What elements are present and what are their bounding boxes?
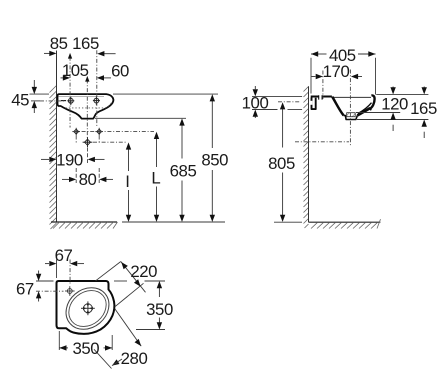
trap line dash-dot side view xyxy=(295,141,349,143)
tab hole centerline through wall dash-dot xyxy=(278,101,301,103)
dim 165 arrows xyxy=(423,87,425,90)
svg-text:67: 67 xyxy=(55,246,73,265)
dim 280 connecting line xyxy=(112,359,122,366)
wall hatching side view xyxy=(304,87,309,229)
floor line front view xyxy=(51,221,117,223)
dim 80 arrow left xyxy=(62,178,69,180)
dim 67 top extension line xyxy=(56,260,58,279)
svg-text:67: 67 xyxy=(16,279,34,298)
svg-text:120: 120 xyxy=(381,95,408,114)
dim 45 top extension line xyxy=(30,93,50,95)
dim 67 left extension line xyxy=(36,280,54,282)
dim 220 extension line upper xyxy=(96,262,121,281)
svg-text:100: 100 xyxy=(242,94,269,113)
tap hole vertical centerline plan xyxy=(69,260,71,286)
tab hole white notch xyxy=(310,101,312,105)
dim 350 bottom extensions xyxy=(58,331,60,350)
svg-text:85: 85 xyxy=(50,34,68,53)
dim 45 arrow top xyxy=(33,80,35,88)
chain arrow at 105/60 junction xyxy=(85,76,89,82)
dim L vertical line xyxy=(156,136,158,218)
bowl right wall side view xyxy=(357,108,370,115)
dim 67 top arrows xyxy=(45,263,49,265)
svg-text:I: I xyxy=(125,172,129,191)
extension line 405 right xyxy=(375,58,377,95)
dim I vertical line xyxy=(128,147,130,219)
dim 80 arrow right xyxy=(106,178,113,180)
svg-text:685: 685 xyxy=(170,162,197,181)
dim 120 arrows xyxy=(392,87,394,90)
bolt hole marker right xyxy=(95,128,103,136)
dim 190 arrow left xyxy=(41,158,49,160)
plan outline xyxy=(57,281,115,334)
svg-text:350: 350 xyxy=(72,339,99,358)
tap hole slot borders side view xyxy=(319,95,322,99)
dim 100 arrow top xyxy=(254,86,256,89)
svg-text:280: 280 xyxy=(121,349,148,368)
tap hole plan xyxy=(65,286,75,296)
extension line basin top (850) xyxy=(113,93,218,95)
extension line basin bottom (685) xyxy=(95,117,186,119)
drain centerline vertical dash-dot xyxy=(349,70,351,147)
front lip bottom tip xyxy=(369,108,371,110)
wall face line side view xyxy=(308,86,310,222)
dim 85 arrow left xyxy=(44,52,50,54)
dim 220 arrow upper xyxy=(119,260,128,269)
tap hole centerline side view dash-dot xyxy=(322,71,324,100)
dim 220 extension line lower (from bulge) xyxy=(115,283,144,307)
dim 100 extension lines xyxy=(252,95,302,97)
floor extension line left of wall xyxy=(274,221,302,223)
dim 405 line with arrows xyxy=(311,53,376,55)
tap hole horizontal centerline plan xyxy=(36,290,64,292)
svg-text:105: 105 xyxy=(62,61,89,80)
svg-text:L: L xyxy=(151,168,160,187)
drain flange hatched side view xyxy=(347,113,356,117)
basin rim top band side view xyxy=(311,96,332,98)
svg-text:165: 165 xyxy=(72,34,99,53)
dim 280 arrow lower xyxy=(111,359,120,367)
floor extension line (to vertical dims) xyxy=(122,221,225,223)
bowl outer oval plan xyxy=(58,279,118,338)
floor hatching front view xyxy=(53,222,118,229)
tap hole horizontal centerline through wall xyxy=(40,100,64,102)
overflow slot dash xyxy=(61,100,66,102)
bowl inner oval plan xyxy=(62,283,114,334)
dim 805 vertical line xyxy=(282,106,284,218)
dim 850 vertical line xyxy=(211,98,213,218)
svg-text:190: 190 xyxy=(56,150,83,169)
svg-text:850: 850 xyxy=(201,150,228,169)
hidden bowl rim dotted line xyxy=(66,107,106,109)
bolt hole marker left xyxy=(72,128,80,136)
svg-text:60: 60 xyxy=(111,62,129,81)
dim 280 arrow upper xyxy=(135,339,144,348)
floor hatching side view xyxy=(311,219,381,228)
dim 190/80 extension dash at center xyxy=(87,148,89,164)
dim 165 arrow right xyxy=(104,53,116,55)
svg-text:165: 165 xyxy=(410,99,437,118)
svg-text:45: 45 xyxy=(11,90,29,109)
wall hatching front view xyxy=(50,86,57,230)
centerline tap hole 2 (vertical dash-dot) xyxy=(96,50,98,127)
extension line 405 left xyxy=(310,58,312,94)
dim 170 arrows xyxy=(312,76,316,78)
dim 350 bottom line xyxy=(59,347,112,349)
bowl left wall side view xyxy=(332,97,343,116)
extension line rim top right xyxy=(376,93,428,95)
svg-text:170: 170 xyxy=(323,62,350,81)
dim 280 lower extension line xyxy=(94,349,112,368)
svg-text:350: 350 xyxy=(146,300,173,319)
main centerline (vertical dash-dot) xyxy=(86,80,88,144)
drain symbol plan xyxy=(81,301,95,315)
centerline tap hole 1 (vertical dash-dot) xyxy=(69,57,71,128)
bolt line dash-dot horizontal xyxy=(73,131,154,133)
extension line front lip bottom xyxy=(356,112,400,114)
svg-text:220: 220 xyxy=(130,262,157,281)
wall face line front view (also extension line for 85 dim) xyxy=(56,51,58,223)
trap line dash-dot horizontal xyxy=(93,141,127,143)
dim 45 arrow bottom xyxy=(33,106,35,113)
dim 60 arrow xyxy=(104,77,111,79)
basin outline front view xyxy=(58,94,114,119)
svg-text:80: 80 xyxy=(79,170,97,189)
dim 100 arrow bottom xyxy=(254,115,256,118)
dim 350 right bottom extension xyxy=(136,329,165,331)
hidden bowl rim dotted curve right xyxy=(105,103,111,108)
dim 80 extension dashes xyxy=(75,168,77,183)
front lip side view xyxy=(370,95,375,108)
dim 350 right vertical line xyxy=(158,285,160,326)
dim 220 line lower part xyxy=(121,262,146,293)
dim 280 diagonal line upper xyxy=(115,309,141,346)
svg-text:805: 805 xyxy=(268,154,295,173)
trap outlet cross xyxy=(83,137,93,147)
tap hole 2 front xyxy=(93,96,100,105)
tap hole 1 front xyxy=(67,97,74,106)
dim 105 arrow left xyxy=(61,77,64,79)
basin rim inner top line xyxy=(59,96,105,98)
dim 67 left arrows xyxy=(38,271,40,274)
rim deck thin top line side view xyxy=(332,96,371,98)
dim 220 arrow lower xyxy=(134,279,143,288)
bowl right inner surface line xyxy=(358,103,372,114)
chain arrow at 85/165 junction xyxy=(68,53,72,59)
dim 190 arrow right xyxy=(95,158,105,160)
dim 350 right top extension xyxy=(114,280,165,282)
extension line bowl bottom right xyxy=(357,119,428,121)
drain bump outline side view xyxy=(344,115,358,119)
dim 685 vertical line xyxy=(181,122,183,218)
floor line side view xyxy=(309,221,381,223)
back fixing tab side view xyxy=(312,98,316,110)
bolt marker verticals dash-dot xyxy=(75,136,77,143)
dim 45 bottom extension line xyxy=(31,100,40,102)
